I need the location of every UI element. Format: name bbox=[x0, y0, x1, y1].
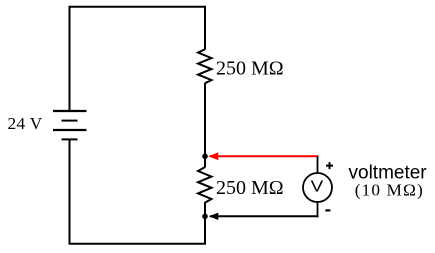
svg-text:250 MΩ: 250 MΩ bbox=[216, 57, 284, 79]
voltmeter U1 circle bbox=[303, 173, 332, 202]
node B junction dot bbox=[202, 214, 208, 220]
svg-text:(10 MΩ): (10 MΩ) bbox=[355, 180, 424, 199]
wire right upper bbox=[204, 6, 206, 50]
minus sign bbox=[325, 209, 330, 211]
battery B1 plate long bbox=[53, 129, 87, 131]
battery B1 plate long top bbox=[53, 110, 87, 112]
svg-text:24 V: 24 V bbox=[8, 114, 43, 133]
wire red test lead bbox=[210, 155, 319, 157]
resistor R1 bbox=[198, 49, 212, 83]
wire voltmeter top lead bbox=[317, 156, 319, 173]
wire bottom bbox=[69, 243, 207, 245]
black arrowhead at node B bbox=[209, 213, 219, 220]
wire voltmeter bottom lead bbox=[317, 201, 319, 217]
svg-text:V: V bbox=[311, 179, 324, 196]
battery B1 plate short bbox=[62, 120, 78, 122]
wire left lower bbox=[69, 139, 71, 243]
red arrowhead at node A bbox=[208, 152, 218, 160]
node A junction dot bbox=[202, 154, 208, 160]
wire left upper bbox=[69, 6, 71, 111]
wire below R2 bbox=[204, 202, 206, 244]
wire top bbox=[69, 6, 207, 8]
resistor R2 bbox=[198, 167, 212, 203]
plus sign bbox=[326, 162, 333, 169]
battery B1 plate short bottom bbox=[62, 138, 78, 140]
wire black return lead bbox=[210, 215, 318, 217]
wire middle right bbox=[204, 83, 206, 168]
svg-text:250 MΩ: 250 MΩ bbox=[216, 177, 284, 199]
